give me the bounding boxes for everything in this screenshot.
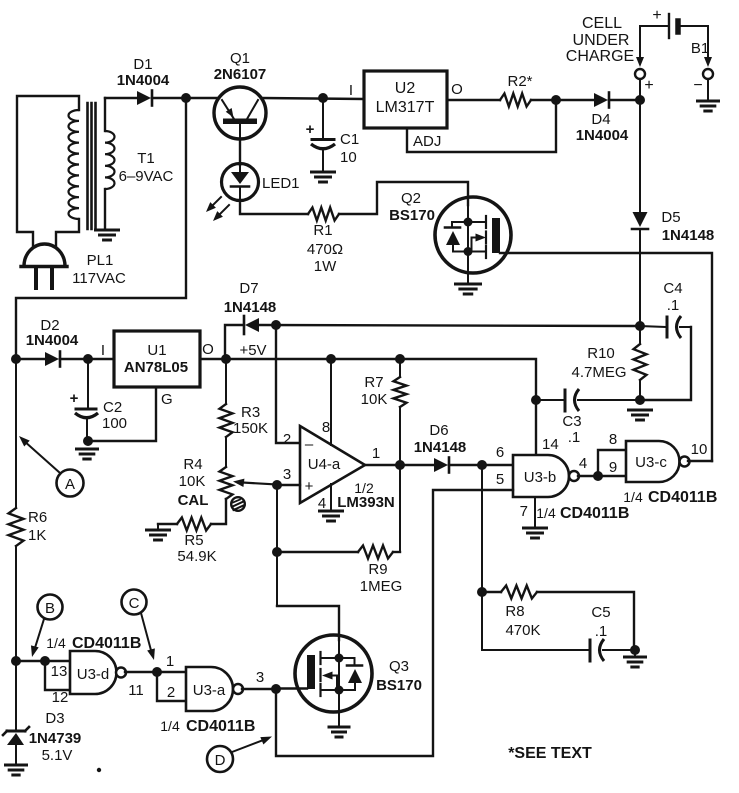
D6 label bbox=[414, 422, 467, 456]
svg-text:1: 1 bbox=[166, 653, 174, 670]
svg-text:B: B bbox=[45, 600, 55, 617]
U2 ADJ wire bbox=[407, 100, 556, 152]
svg-text:BS170: BS170 bbox=[389, 207, 435, 224]
diode D1 label bbox=[117, 56, 170, 89]
diode D5 bbox=[632, 212, 648, 229]
svg-text:*SEE TEXT: *SEE TEXT bbox=[508, 745, 592, 762]
cell text bbox=[566, 15, 634, 65]
resistor R3 bbox=[220, 359, 233, 467]
LED1 light arrows bbox=[206, 197, 229, 221]
svg-text:D4: D4 bbox=[591, 111, 610, 128]
node C bbox=[122, 590, 147, 615]
svg-text:U3-d: U3-d bbox=[77, 666, 110, 683]
svg-text:PL1: PL1 bbox=[87, 252, 114, 269]
svg-text:LED1: LED1 bbox=[262, 175, 300, 192]
svg-text:A: A bbox=[65, 476, 75, 493]
svg-text:+: + bbox=[644, 77, 653, 94]
wire pin6 down bbox=[481, 465, 483, 650]
svg-text:Q2: Q2 bbox=[401, 190, 421, 207]
LED LED1 bbox=[222, 164, 259, 201]
svg-text:D6: D6 bbox=[429, 422, 448, 439]
ground R5 bbox=[147, 524, 170, 540]
svg-text:BS170: BS170 bbox=[376, 677, 422, 694]
wire node to D5 bbox=[639, 100, 641, 212]
svg-text:.1: .1 bbox=[667, 297, 680, 314]
U3-a out wire bbox=[242, 688, 272, 690]
svg-text:CAL: CAL bbox=[178, 492, 209, 509]
C3 label bbox=[562, 413, 581, 446]
node R9 left bbox=[272, 547, 282, 557]
U2 labels bbox=[376, 80, 435, 116]
NAND gate U3-c bbox=[626, 441, 679, 482]
transistor Q2 bbox=[435, 197, 511, 284]
regulator U2 bbox=[364, 71, 447, 128]
node D bbox=[207, 746, 233, 772]
svg-text:R7: R7 bbox=[364, 374, 383, 391]
wire gate to Q3 bbox=[276, 687, 307, 689]
wire node to R8 bbox=[482, 591, 501, 593]
svg-text:D1: D1 bbox=[133, 56, 152, 73]
pin1 wire bbox=[157, 671, 186, 673]
svg-text:U3-c: U3-c bbox=[635, 454, 667, 471]
NAND gate U3-b bbox=[513, 455, 569, 497]
node D7 line bbox=[271, 320, 281, 330]
svg-text:+: + bbox=[306, 121, 315, 138]
transformer T1 primary winding bbox=[17, 96, 79, 246]
svg-text:6–9VAC: 6–9VAC bbox=[119, 168, 174, 185]
svg-text:C4: C4 bbox=[663, 280, 682, 297]
R7 label bbox=[361, 374, 388, 408]
svg-text:R6: R6 bbox=[28, 509, 47, 526]
pin4 stub bbox=[330, 484, 332, 511]
ground Q3 source bbox=[329, 726, 349, 729]
ground Q2 source bbox=[456, 283, 481, 286]
svg-text:2: 2 bbox=[283, 431, 291, 448]
R6 label bbox=[28, 509, 47, 544]
svg-text:6: 6 bbox=[496, 444, 504, 461]
regulator U1 bbox=[114, 331, 200, 387]
D3 label bbox=[29, 710, 82, 764]
wire opamp out bbox=[365, 464, 434, 466]
op-amp U4-a bbox=[300, 426, 365, 503]
R1 label bbox=[307, 222, 343, 275]
node C2 ground bbox=[83, 436, 93, 446]
node pin4 bbox=[593, 471, 603, 481]
node pin8 tap bbox=[326, 354, 336, 364]
terminal minus bbox=[703, 69, 713, 79]
wire Q1 to LED1 bbox=[239, 139, 241, 165]
wire D4 to node bbox=[609, 99, 640, 101]
transistor Q1 bbox=[214, 87, 266, 139]
svg-text:1MEG: 1MEG bbox=[360, 578, 403, 595]
wire pin2 bbox=[276, 325, 300, 443]
svg-text:9: 9 bbox=[609, 459, 617, 476]
svg-text:3: 3 bbox=[283, 466, 291, 483]
plug PL1 bbox=[21, 244, 67, 288]
svg-text:1N4148: 1N4148 bbox=[662, 227, 715, 244]
svg-text:U3-b: U3-b bbox=[524, 469, 557, 486]
svg-text:+5V: +5V bbox=[239, 342, 266, 359]
pins 8 9 loop bbox=[598, 450, 626, 476]
pin14 vert bbox=[535, 400, 537, 455]
ground U4-a bbox=[320, 510, 343, 513]
U3-b bubble bbox=[569, 471, 579, 481]
U3-a type label bbox=[160, 718, 255, 735]
svg-text:+: + bbox=[305, 478, 314, 495]
node B rail bbox=[11, 656, 21, 666]
ground C1 bbox=[312, 171, 335, 174]
resistor R2 bbox=[500, 94, 531, 107]
battery B1 bbox=[640, 14, 708, 38]
resistor R9 bbox=[358, 546, 393, 559]
svg-text:.1: .1 bbox=[595, 623, 608, 640]
wire R2 to D4 bbox=[531, 99, 594, 101]
svg-text:100: 100 bbox=[102, 415, 127, 432]
wire R1 to Q2 drain bbox=[339, 182, 468, 214]
svg-text:4.7MEG: 4.7MEG bbox=[571, 364, 626, 381]
pin8 stub bbox=[330, 359, 332, 445]
svg-text:4: 4 bbox=[318, 495, 326, 512]
node D arrow bbox=[232, 737, 272, 753]
svg-text:1N4148: 1N4148 bbox=[414, 439, 467, 456]
resistor R6 bbox=[9, 508, 24, 546]
transistor Q3 bbox=[295, 635, 372, 727]
pin12 loop bbox=[45, 661, 70, 690]
node C3 pin14 bbox=[531, 395, 541, 405]
svg-text:1N4004: 1N4004 bbox=[26, 332, 79, 349]
wire R9 left bbox=[277, 551, 358, 553]
svg-text:I: I bbox=[349, 82, 353, 99]
svg-text:R4: R4 bbox=[183, 456, 202, 473]
wire U1 out bbox=[200, 358, 226, 360]
svg-text:R5: R5 bbox=[184, 532, 203, 549]
NAND gate U3-d bbox=[70, 651, 116, 694]
transistor Q1 label bbox=[214, 50, 267, 83]
svg-text:117VAC: 117VAC bbox=[72, 270, 126, 287]
svg-text:7: 7 bbox=[520, 503, 528, 520]
node left rail D2 bbox=[11, 354, 21, 364]
svg-text:150K: 150K bbox=[233, 420, 268, 437]
svg-text:1W: 1W bbox=[314, 258, 337, 275]
diode D7 bbox=[244, 316, 259, 334]
svg-text:10: 10 bbox=[340, 149, 357, 166]
svg-text:D3: D3 bbox=[45, 710, 64, 727]
svg-text:−: − bbox=[693, 77, 702, 94]
svg-text:470Ω: 470Ω bbox=[307, 241, 343, 258]
wire plus terminal to node bbox=[639, 79, 641, 100]
svg-text:AN78L05: AN78L05 bbox=[124, 359, 188, 376]
svg-text:B1: B1 bbox=[691, 40, 709, 57]
zener D3 bbox=[3, 661, 29, 765]
wire left rail upper bbox=[15, 359, 17, 508]
diode D4 bbox=[594, 93, 609, 108]
svg-text:U2: U2 bbox=[395, 80, 416, 97]
wire to D2 bbox=[16, 358, 45, 360]
wire D5 to node bbox=[639, 230, 641, 326]
U4-a type label bbox=[337, 480, 395, 511]
wire Q2 gate to pin10 line bbox=[500, 253, 712, 461]
svg-text:CD4011B: CD4011B bbox=[648, 489, 717, 506]
wire LED1 to R1 bbox=[240, 200, 308, 214]
NAND gate U3-a bbox=[186, 667, 233, 711]
svg-text:14: 14 bbox=[542, 436, 559, 453]
R4 screw bbox=[231, 497, 245, 511]
svg-text:O: O bbox=[451, 81, 463, 98]
wire D6 to U3-b bbox=[449, 464, 513, 466]
ground D3 bbox=[6, 764, 27, 767]
wire R9 right bbox=[393, 551, 400, 553]
resistor R8 bbox=[501, 586, 537, 599]
wire R6 to B node bbox=[15, 546, 17, 661]
U1 labels bbox=[124, 342, 188, 376]
wire B1 to minus terminal bbox=[704, 26, 712, 67]
svg-text:+: + bbox=[652, 7, 661, 24]
U3-c bubble bbox=[680, 457, 690, 467]
transformer T1 label bbox=[119, 150, 174, 185]
node D5 C4 R10 bbox=[635, 321, 645, 331]
D2 label bbox=[26, 317, 79, 349]
svg-text:470K: 470K bbox=[505, 622, 540, 639]
capacitor C4 bbox=[640, 316, 691, 400]
R5 label bbox=[177, 532, 216, 565]
svg-text:1/4: 1/4 bbox=[536, 505, 556, 521]
ground secondary bbox=[96, 230, 119, 240]
node R10 bottom bbox=[635, 395, 645, 405]
svg-text:10K: 10K bbox=[361, 391, 388, 408]
svg-text:.1: .1 bbox=[568, 429, 581, 446]
Q3 label bbox=[376, 658, 422, 694]
plug PL1 label bbox=[72, 252, 126, 287]
R3 label bbox=[233, 404, 268, 437]
wire secondary to D1 bbox=[105, 97, 137, 99]
svg-text:R8: R8 bbox=[505, 603, 524, 620]
svg-text:O: O bbox=[202, 341, 214, 358]
node R2 D4 ADJ bbox=[551, 95, 561, 105]
+5V rail bbox=[226, 359, 536, 455]
ground B1 minus bbox=[698, 100, 719, 103]
svg-text:10K: 10K bbox=[179, 473, 206, 490]
svg-text:4: 4 bbox=[579, 455, 587, 472]
svg-text:R1: R1 bbox=[313, 222, 332, 239]
diode D6 bbox=[434, 458, 449, 473]
wire D1 to Q1 bbox=[152, 97, 218, 99]
node A arrow bbox=[19, 436, 60, 473]
svg-text:CD4011B: CD4011B bbox=[72, 635, 141, 652]
diode D1 bbox=[137, 91, 152, 106]
ground C2 bbox=[77, 448, 98, 451]
node C1 tap bbox=[318, 93, 328, 103]
svg-text:U4-a: U4-a bbox=[308, 456, 341, 473]
node output bbox=[395, 460, 405, 470]
svg-text:CD4011B: CD4011B bbox=[186, 718, 255, 735]
svg-text:D5: D5 bbox=[661, 209, 680, 226]
C5 label bbox=[591, 604, 610, 640]
svg-text:C2: C2 bbox=[103, 399, 122, 416]
C2 label bbox=[102, 399, 127, 432]
svg-text:G: G bbox=[161, 391, 173, 408]
ground C5 bbox=[625, 650, 646, 667]
svg-text:D: D bbox=[215, 752, 226, 769]
resistor R5 bbox=[177, 518, 211, 531]
svg-text:LM317T: LM317T bbox=[376, 99, 435, 116]
svg-text:54.9K: 54.9K bbox=[177, 548, 216, 565]
svg-text:+: + bbox=[70, 390, 79, 407]
pin2 loop bbox=[157, 672, 186, 701]
capacitor C1 bbox=[311, 98, 335, 172]
node pin3 bbox=[272, 480, 282, 490]
svg-text:5.1V: 5.1V bbox=[42, 747, 73, 764]
node R8 left bbox=[477, 587, 487, 597]
svg-text:R2*: R2* bbox=[507, 73, 532, 90]
wire Q1 to U2 bbox=[262, 98, 364, 99]
node after D1 bbox=[181, 93, 191, 103]
svg-text:R3: R3 bbox=[241, 404, 260, 421]
C1 label bbox=[340, 131, 359, 166]
R8 label bbox=[505, 603, 540, 639]
node +5V bbox=[221, 354, 231, 364]
wire pin3 down bbox=[276, 485, 278, 606]
svg-text:8: 8 bbox=[609, 431, 617, 448]
svg-text:ADJ: ADJ bbox=[413, 133, 441, 150]
transformer T1 core bbox=[88, 103, 96, 229]
node C5 ground bbox=[630, 645, 640, 655]
svg-text:1/4: 1/4 bbox=[623, 489, 643, 505]
svg-text:1N4148: 1N4148 bbox=[224, 299, 277, 316]
wire R5 to ground bbox=[158, 523, 177, 525]
svg-text:13: 13 bbox=[51, 663, 68, 680]
R9 label bbox=[360, 561, 403, 595]
node C arrow bbox=[141, 613, 155, 660]
stray dot bbox=[97, 768, 101, 772]
svg-text:8: 8 bbox=[322, 419, 330, 436]
D4 label bbox=[576, 111, 629, 144]
svg-text:C: C bbox=[129, 595, 140, 612]
svg-text:2N6107: 2N6107 bbox=[214, 66, 267, 83]
svg-text:1K: 1K bbox=[28, 527, 46, 544]
wire B to U3-d bbox=[16, 660, 70, 662]
wire B1 to plus terminal bbox=[636, 26, 644, 67]
svg-text:R9: R9 bbox=[368, 561, 387, 578]
node pin6 bbox=[477, 460, 487, 470]
svg-text:1N4004: 1N4004 bbox=[576, 127, 629, 144]
node B bbox=[38, 595, 63, 620]
wire minus to ground bbox=[707, 79, 709, 100]
U3-c type label bbox=[623, 489, 717, 506]
capacitor C5 bbox=[482, 639, 634, 661]
wire U2 out to R2 bbox=[447, 99, 500, 101]
wire D2 to U1 bbox=[60, 358, 114, 360]
resistor R1 bbox=[308, 208, 339, 221]
svg-text:12: 12 bbox=[52, 689, 69, 706]
svg-text:I: I bbox=[101, 342, 105, 359]
svg-text:LM393N: LM393N bbox=[337, 494, 395, 511]
svg-text:5: 5 bbox=[496, 471, 504, 488]
svg-text:C5: C5 bbox=[591, 604, 610, 621]
svg-text:T1: T1 bbox=[137, 150, 155, 167]
svg-text:C1: C1 bbox=[340, 131, 359, 148]
ground U3-b bbox=[524, 527, 547, 530]
D5 label bbox=[661, 209, 714, 244]
wire R7 node to R9 bbox=[399, 465, 401, 552]
svg-text:1N4739: 1N4739 bbox=[29, 730, 82, 747]
transformer T1 secondary winding bbox=[105, 98, 115, 230]
svg-text:CHARGE: CHARGE bbox=[566, 48, 634, 65]
pin5 wire bbox=[276, 490, 513, 756]
potentiometer R4 bbox=[220, 467, 278, 499]
wire to Q3 drain bbox=[277, 606, 339, 640]
wire R8 right bbox=[537, 592, 634, 650]
svg-text:1N4004: 1N4004 bbox=[117, 72, 170, 89]
resistor R7 bbox=[394, 359, 407, 465]
pin10 wire bbox=[688, 460, 712, 462]
svg-text:UNDER: UNDER bbox=[573, 32, 630, 49]
svg-text:Q3: Q3 bbox=[389, 658, 409, 675]
svg-text:10: 10 bbox=[691, 441, 708, 458]
svg-text:U1: U1 bbox=[147, 342, 166, 359]
svg-text:C3: C3 bbox=[562, 413, 581, 430]
node pins 13 12 bbox=[40, 656, 50, 666]
terminal plus bbox=[635, 69, 645, 79]
capacitor C2 bbox=[75, 359, 98, 441]
node C2 tap bbox=[83, 354, 93, 364]
svg-text:1: 1 bbox=[372, 445, 380, 462]
U3-d bubble bbox=[116, 668, 126, 678]
D7 label bbox=[224, 280, 277, 316]
wire D7 anode line bbox=[259, 325, 640, 326]
svg-text:3: 3 bbox=[256, 669, 264, 686]
wire node to lower-left rail bbox=[16, 98, 186, 359]
svg-text:R10: R10 bbox=[587, 345, 615, 362]
U3-b out wire bbox=[578, 475, 594, 477]
wire pin3 bbox=[277, 484, 300, 486]
R10 label bbox=[571, 345, 626, 381]
Q2 label bbox=[389, 190, 435, 224]
diode D2 bbox=[45, 352, 60, 367]
wire R4 to R5 bbox=[211, 499, 226, 524]
node cell plus bbox=[635, 95, 645, 105]
node C junction bbox=[152, 667, 162, 677]
U3-a bubble bbox=[233, 684, 243, 694]
svg-text:–: – bbox=[305, 436, 314, 453]
U3-b type label bbox=[536, 505, 629, 522]
U3-d out wire bbox=[125, 671, 153, 673]
R4 label bbox=[178, 456, 209, 509]
pin7 stub bbox=[534, 497, 536, 528]
svg-text:1/4: 1/4 bbox=[46, 635, 66, 651]
ground R10 bbox=[629, 409, 652, 412]
svg-text:CD4011B: CD4011B bbox=[560, 505, 629, 522]
node Q3 gate bbox=[271, 684, 281, 694]
resistor R10 bbox=[634, 326, 647, 400]
svg-text:11: 11 bbox=[128, 682, 144, 699]
svg-text:CELL: CELL bbox=[582, 15, 622, 32]
svg-text:D7: D7 bbox=[239, 280, 258, 297]
node B arrow bbox=[31, 619, 44, 657]
node A bbox=[57, 470, 84, 497]
svg-text:2: 2 bbox=[167, 684, 175, 701]
svg-text:1/4: 1/4 bbox=[160, 718, 180, 734]
svg-text:U3-a: U3-a bbox=[193, 682, 226, 699]
U3-d type label bbox=[46, 635, 141, 652]
node R7 tap bbox=[395, 354, 405, 364]
svg-text:Q1: Q1 bbox=[230, 50, 250, 67]
C4 label bbox=[663, 280, 682, 314]
capacitor C3 bbox=[536, 389, 640, 411]
wire D7 cathode to +5V node bbox=[225, 325, 243, 359]
U1 G wire bbox=[88, 387, 156, 441]
